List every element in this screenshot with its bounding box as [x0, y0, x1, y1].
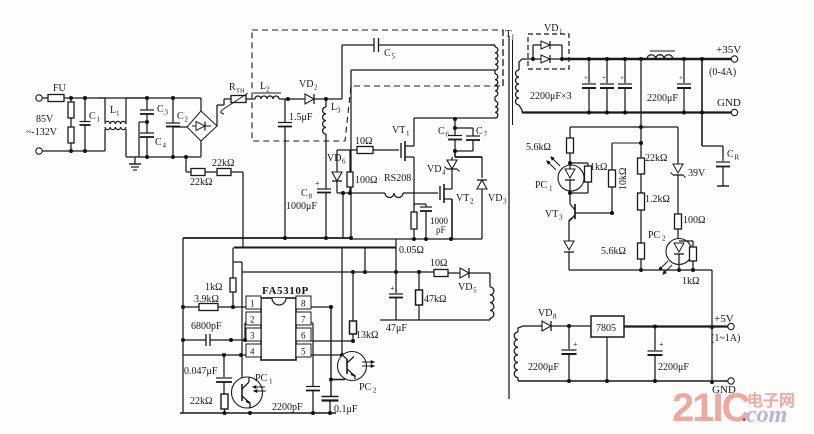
- svg-text:39V: 39V: [688, 168, 706, 179]
- svg-text:0.05Ω: 0.05Ω: [399, 245, 424, 256]
- svg-text:VD: VD: [458, 282, 472, 293]
- svg-text:C: C: [438, 126, 445, 137]
- svg-text:C: C: [157, 104, 164, 115]
- svg-text:2: 2: [314, 84, 318, 92]
- svg-text:C: C: [727, 149, 734, 160]
- svg-text:VD: VD: [299, 79, 313, 90]
- svg-text:22kΩ: 22kΩ: [190, 177, 212, 188]
- svg-text:+: +: [620, 74, 624, 82]
- svg-text:2: 2: [250, 315, 255, 325]
- svg-text:10Ω: 10Ω: [355, 136, 372, 147]
- svg-text:4: 4: [250, 347, 255, 357]
- svg-text:2200μF×3: 2200μF×3: [530, 91, 572, 102]
- svg-text:TH: TH: [236, 88, 245, 95]
- svg-text:2: 2: [266, 86, 270, 94]
- svg-text:21IC: 21IC: [672, 386, 750, 430]
- svg-text:+: +: [659, 340, 664, 349]
- svg-text:1.5μF: 1.5μF: [289, 112, 313, 123]
- svg-text:+: +: [573, 340, 578, 349]
- svg-text:2: 2: [470, 198, 474, 206]
- svg-text:2: 2: [662, 235, 666, 243]
- svg-text:0.047μF: 0.047μF: [184, 366, 218, 377]
- svg-text:5: 5: [301, 347, 306, 357]
- svg-text:47kΩ: 47kΩ: [424, 294, 446, 305]
- svg-text:3: 3: [503, 198, 507, 206]
- svg-text:13kΩ: 13kΩ: [356, 330, 378, 341]
- svg-text:2200μF: 2200μF: [658, 362, 689, 373]
- svg-text:FU: FU: [53, 83, 67, 94]
- svg-text:7805: 7805: [596, 323, 616, 334]
- svg-text:1000μF: 1000μF: [286, 201, 317, 212]
- svg-text:C: C: [155, 137, 162, 148]
- svg-text:4: 4: [163, 142, 167, 150]
- svg-text:7: 7: [301, 315, 306, 325]
- svg-text:1: 1: [269, 378, 273, 386]
- svg-text:5: 5: [392, 53, 396, 61]
- svg-text:com: com: [746, 402, 787, 428]
- svg-text:1: 1: [97, 116, 101, 124]
- svg-text:85V: 85V: [36, 114, 54, 125]
- svg-text:2200μF: 2200μF: [528, 362, 559, 373]
- svg-text:8: 8: [553, 313, 557, 321]
- svg-text:VD: VD: [327, 153, 341, 164]
- svg-text:7: 7: [484, 131, 488, 139]
- svg-text:pF: pF: [436, 225, 446, 235]
- svg-text:2200pF: 2200pF: [272, 402, 303, 413]
- svg-text:C: C: [89, 111, 96, 122]
- svg-text:~-132V: ~-132V: [26, 127, 58, 138]
- svg-text:1kΩ: 1kΩ: [590, 162, 607, 173]
- svg-text:+5V: +5V: [714, 313, 734, 325]
- svg-text:5.6kΩ: 5.6kΩ: [601, 246, 626, 257]
- svg-text:2200μF: 2200μF: [647, 93, 678, 104]
- svg-text:+35V: +35V: [716, 44, 741, 56]
- svg-text:R: R: [229, 82, 236, 93]
- svg-text:100Ω: 100Ω: [683, 215, 705, 226]
- svg-text:(1~1A): (1~1A): [711, 333, 740, 344]
- svg-text:4: 4: [442, 169, 446, 177]
- svg-text:6: 6: [342, 158, 346, 166]
- svg-text:47μF: 47μF: [386, 323, 407, 334]
- svg-text:VD: VD: [427, 164, 441, 175]
- svg-text:6: 6: [301, 331, 306, 341]
- svg-text:1.2kΩ: 1.2kΩ: [645, 194, 670, 205]
- svg-text:10kΩ: 10kΩ: [618, 168, 629, 190]
- svg-text:1: 1: [406, 130, 410, 138]
- svg-text:(0-4A): (0-4A): [709, 67, 736, 78]
- svg-text:R: R: [735, 154, 740, 162]
- svg-text:C: C: [177, 111, 184, 122]
- svg-text:VT: VT: [545, 209, 558, 220]
- svg-text:22kΩ: 22kΩ: [645, 153, 667, 164]
- svg-text:VT: VT: [392, 125, 405, 136]
- svg-text:VT: VT: [456, 193, 469, 204]
- svg-text:+: +: [584, 74, 588, 82]
- svg-text:1kΩ: 1kΩ: [205, 282, 222, 293]
- svg-text:+: +: [315, 179, 320, 188]
- svg-text:C: C: [476, 126, 483, 137]
- svg-text:1: 1: [250, 299, 255, 309]
- svg-text:FA5310P: FA5310P: [262, 285, 309, 297]
- svg-text:22kΩ: 22kΩ: [212, 158, 234, 169]
- svg-text:PC: PC: [535, 180, 548, 191]
- svg-text:C: C: [301, 188, 308, 199]
- svg-text:1: 1: [116, 110, 120, 118]
- svg-text:PC: PC: [648, 230, 661, 241]
- svg-text:C: C: [384, 48, 391, 59]
- svg-text:VD: VD: [544, 23, 558, 34]
- svg-text:GND: GND: [717, 97, 741, 109]
- svg-text:6: 6: [446, 131, 450, 139]
- svg-text:VD: VD: [538, 308, 552, 319]
- svg-text:+: +: [679, 74, 683, 82]
- svg-text:2: 2: [373, 387, 377, 395]
- svg-text:8: 8: [301, 299, 306, 309]
- svg-text:6800pF: 6800pF: [191, 321, 222, 332]
- svg-text:VD: VD: [488, 193, 502, 204]
- svg-text:22kΩ: 22kΩ: [190, 396, 212, 407]
- svg-text:5.6kΩ: 5.6kΩ: [526, 142, 551, 153]
- svg-text:PC: PC: [359, 382, 372, 393]
- svg-text:0.1μF: 0.1μF: [334, 404, 358, 415]
- svg-text:PC: PC: [255, 373, 268, 384]
- svg-text:8: 8: [309, 193, 313, 201]
- svg-text:3: 3: [559, 214, 563, 222]
- svg-text:3: 3: [337, 107, 341, 115]
- svg-text:1: 1: [549, 185, 553, 193]
- svg-text:RS208: RS208: [384, 173, 411, 184]
- svg-text:3: 3: [165, 109, 169, 117]
- svg-text:5: 5: [473, 287, 477, 295]
- svg-text:+: +: [390, 284, 395, 293]
- svg-text:1kΩ: 1kΩ: [682, 276, 699, 287]
- svg-text:1: 1: [559, 28, 563, 36]
- svg-text:10Ω: 10Ω: [430, 258, 447, 269]
- svg-text:2: 2: [185, 116, 189, 124]
- svg-text:100Ω: 100Ω: [355, 175, 377, 186]
- svg-text:3: 3: [250, 331, 255, 341]
- svg-text:+: +: [602, 74, 606, 82]
